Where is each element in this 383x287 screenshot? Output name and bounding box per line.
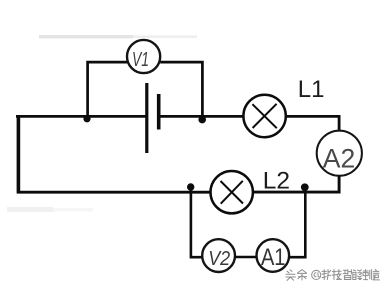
node xyxy=(83,115,90,122)
svg-text:V2: V2 xyxy=(208,247,231,270)
wire xyxy=(161,115,244,118)
node xyxy=(301,183,309,191)
voltmeter V2 xyxy=(202,239,235,272)
battery B1 xyxy=(147,83,159,153)
wire xyxy=(253,176,339,192)
svg-text:A2: A2 xyxy=(323,144,356,174)
svg-text:V1: V1 xyxy=(132,49,149,71)
wire xyxy=(17,115,21,193)
lamp L1 xyxy=(243,95,285,137)
ammeter A2 xyxy=(317,131,362,176)
wire xyxy=(191,190,203,258)
node xyxy=(187,183,194,190)
node xyxy=(198,116,206,124)
svg-text:L1: L1 xyxy=(298,76,325,103)
lamp L2 xyxy=(211,171,253,213)
wire xyxy=(88,62,128,116)
wire xyxy=(286,116,339,130)
wire xyxy=(235,256,257,259)
wire xyxy=(289,190,305,258)
wire xyxy=(160,62,202,116)
watermark 头条@科技智能制造 xyxy=(286,269,379,280)
svg-text:L2: L2 xyxy=(263,168,290,195)
ammeter A1 xyxy=(257,239,290,272)
voltmeter V1 xyxy=(127,40,160,73)
wire xyxy=(17,191,211,194)
svg-text:A1: A1 xyxy=(261,244,286,271)
wire xyxy=(16,115,146,118)
